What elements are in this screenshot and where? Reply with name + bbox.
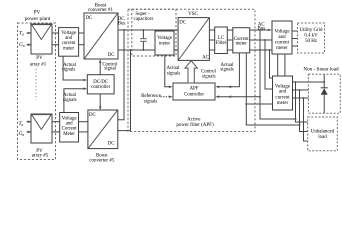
- wire PV1 to meter: [52, 32, 59, 34]
- load voltage and current meter: [273, 76, 293, 110]
- wire G input to PV array #1: [27, 44, 31, 46]
- svg-text:and: and: [65, 36, 73, 41]
- unbalanced load: [308, 117, 338, 151]
- wire meter to boost #1: [79, 32, 84, 34]
- svg-text:and: and: [279, 90, 287, 95]
- non-linear load dashed enclosure: [308, 74, 340, 113]
- VSC U1: [178, 18, 209, 61]
- wire meter #1 to DC/DC controller: [63, 56, 85, 80]
- svg-text:meter: meter: [159, 42, 171, 47]
- AC phase wires LC filter to current meter: [227, 29, 233, 31]
- svg-text:Reference: Reference: [141, 94, 161, 99]
- svg-text:meter: meter: [63, 47, 75, 52]
- DC rail -: [118, 49, 178, 51]
- super-capacitors dashed enclosure: [132, 9, 176, 56]
- svg-text:Active: Active: [187, 118, 201, 123]
- wire PV5 to meter #5: [52, 121, 60, 123]
- svg-text:current: current: [275, 41, 290, 46]
- svg-text:converter #1: converter #1: [88, 8, 114, 13]
- svg-text:signals: signals: [202, 75, 216, 80]
- AC phase wires current meter to grid meter: [250, 29, 269, 31]
- wire T input to PV array #1: [27, 32, 31, 34]
- boost converter #1: [84, 13, 118, 59]
- DC bus vertical / boost #5 output riser: [118, 30, 124, 120]
- svg-text:PV: PV: [34, 9, 41, 15]
- svg-text:signals: signals: [63, 98, 77, 103]
- svg-text:power filter (APF): power filter (APF): [176, 123, 214, 128]
- svg-text:signals: signals: [62, 68, 76, 73]
- PV array #1: [31, 24, 52, 54]
- svg-text:Voltage: Voltage: [157, 36, 172, 41]
- svg-text:DC: DC: [89, 113, 96, 118]
- wire G input to PV array #5: [27, 131, 31, 133]
- wire voltage meter to APF controller: [165, 55, 171, 87]
- PV array #5: [31, 114, 52, 143]
- svg-text:DC: DC: [108, 142, 115, 147]
- voltage and current meter #5: [60, 113, 79, 143]
- PV power plant dashed enclosure: [18, 23, 56, 160]
- diode D1: [323, 74, 325, 87]
- svg-text:load: load: [318, 135, 327, 140]
- control signal wire up to boost #1: [99, 61, 101, 75]
- wires grid meter to utility grid: [292, 30, 298, 32]
- DC rail +: [118, 29, 178, 31]
- control signal wire down to boost #5: [99, 94, 101, 109]
- svg-text:Controller: Controller: [184, 93, 204, 98]
- svg-text:Unbalanced: Unbalanced: [311, 129, 335, 134]
- svg-text:Meter: Meter: [63, 132, 75, 137]
- svg-text:capacitors: capacitors: [134, 17, 154, 22]
- svg-text:DC: DC: [108, 53, 115, 58]
- boost #5 lower output riser: [118, 50, 131, 131]
- grid voltage and current meter: [272, 21, 292, 54]
- DC-link voltage meter: [155, 31, 174, 55]
- svg-text:meter: meter: [276, 46, 288, 51]
- svg-text:signal: signal: [104, 67, 116, 72]
- capacitor C: [142, 30, 144, 38]
- svg-text:Bus: Bus: [118, 22, 126, 27]
- wires load meter to loads: [293, 81, 325, 83]
- svg-text:controller: controller: [91, 85, 110, 90]
- svg-text:AC: AC: [202, 56, 209, 61]
- svg-text:meter: meter: [236, 42, 248, 47]
- wire into load meter bottom port: [246, 103, 272, 105]
- svg-text:DC: DC: [179, 21, 186, 26]
- boost converter #5: [88, 110, 118, 149]
- wire current meter sense to APF controller: [217, 53, 239, 87]
- wire current meter aux down to load feeder: [246, 53, 299, 125]
- svg-text:0.4 kV: 0.4 kV: [304, 34, 318, 39]
- svg-text:meter: meter: [277, 101, 289, 106]
- active power filter dashed enclosure: [128, 9, 255, 131]
- svg-text:Filter: Filter: [216, 41, 227, 46]
- DC/DC controller: [87, 75, 114, 94]
- svg-text:Bus: Bus: [257, 26, 265, 31]
- AC bus tap C down to load meter: [270, 50, 273, 78]
- svg-text:array #1: array #1: [30, 62, 47, 67]
- svg-text:and: and: [66, 121, 74, 126]
- svg-text:Non - linear load: Non - linear load: [303, 67, 339, 73]
- wire meter #5 to boost #5: [79, 121, 88, 123]
- svg-text:DC: DC: [86, 16, 93, 21]
- svg-text:array #5: array #5: [32, 154, 49, 159]
- AC phase wires VSC to LC filter: [209, 29, 214, 31]
- ellipsis between arrays: [35, 69, 37, 100]
- svg-text:Voltage: Voltage: [274, 29, 290, 34]
- svg-text:signals: signals: [144, 99, 158, 104]
- svg-text:converter #5: converter #5: [89, 159, 115, 164]
- svg-text:PV: PV: [36, 56, 43, 61]
- wire AC bus sense to APF controller: [217, 96, 260, 98]
- AC bus tap B down to load meter: [265, 40, 273, 89]
- svg-text:and: and: [278, 35, 286, 40]
- svg-text:Utility Grid: Utility Grid: [300, 28, 324, 33]
- svg-text:signals: signals: [167, 71, 181, 76]
- svg-text:Voltage: Voltage: [275, 84, 291, 89]
- voltage and current meter #1: [59, 28, 79, 57]
- svg-text:APF: APF: [190, 86, 199, 91]
- wire T input to PV array #5: [27, 121, 31, 123]
- reference signals input: [161, 96, 171, 98]
- utility grid: [298, 23, 325, 53]
- feeder taps down to unbalanced load: [296, 82, 308, 122]
- junction dots DC bus: [123, 29, 125, 31]
- svg-text:signals: signals: [220, 67, 234, 72]
- wires grid meter to load meter: [277, 54, 279, 76]
- svg-text:power plant: power plant: [25, 16, 51, 22]
- wire meter #5 to DC/DC controller: [64, 89, 86, 113]
- APF controller: [173, 83, 215, 100]
- LC filter: [215, 27, 228, 54]
- svg-text:50 Hz: 50 Hz: [305, 39, 318, 44]
- svg-text:VSC: VSC: [188, 12, 198, 17]
- svg-text:current: current: [62, 41, 76, 46]
- current meter: [233, 28, 250, 53]
- AC bus tap A down to load meter: [260, 30, 296, 119]
- control signals open arrow APF to VSC: [185, 61, 197, 83]
- svg-text:current: current: [275, 95, 290, 100]
